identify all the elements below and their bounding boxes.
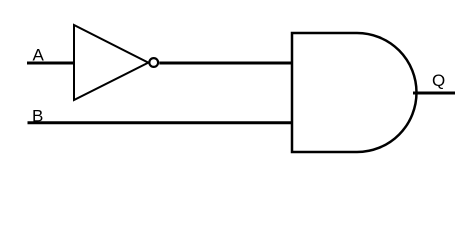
wire B input <box>28 121 294 124</box>
wire inverter output to AND <box>159 62 293 65</box>
svg-text:B: B <box>32 106 43 125</box>
wire A input <box>27 62 75 65</box>
inverter bubble <box>149 58 158 67</box>
inverter U1 triangle <box>74 25 148 100</box>
svg-text:A: A <box>33 46 45 65</box>
wire Q output <box>413 92 455 95</box>
svg-text:Q: Q <box>432 71 445 90</box>
AND gate U2 <box>292 33 417 152</box>
